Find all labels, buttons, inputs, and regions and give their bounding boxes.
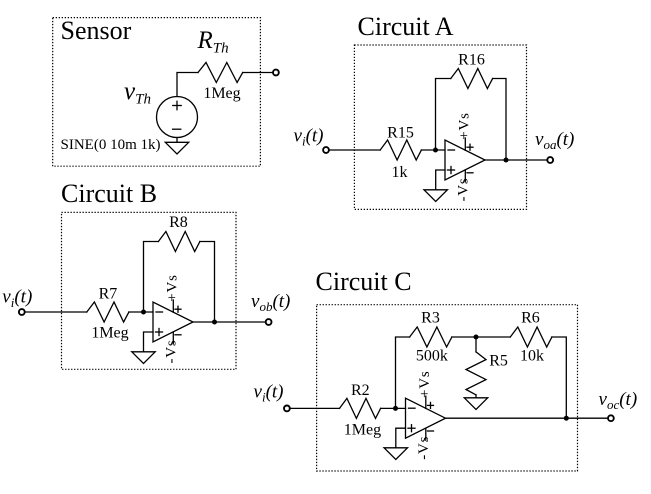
svg-text:SINE(0 10m 1k): SINE(0 10m 1k) [61, 137, 161, 153]
op-amp U_A [445, 138, 485, 182]
terminal: Circuit C input [284, 406, 290, 412]
dashed box: Circuit A block [354, 45, 526, 209]
wire: R2 to op-amp inverting input [381, 407, 406, 409]
svg-text:vi(t): vi(t) [254, 381, 284, 404]
svg-text:vTh: vTh [124, 78, 151, 108]
resistor R6 (10k) [510, 327, 552, 347]
terminal: Circuit A input [323, 147, 329, 153]
resistor R16 [451, 69, 493, 89]
resistor R7 (1Meg) [87, 302, 129, 322]
wire: A input to R15 [329, 149, 380, 151]
terminal: sensor output [273, 70, 279, 76]
dashed box: Circuit B block [62, 212, 237, 369]
voltage source vTh plus mark [173, 105, 181, 107]
svg-text:R8: R8 [169, 214, 188, 231]
wire: junction down to R5 [475, 337, 477, 352]
svg-text:R15: R15 [387, 125, 414, 142]
ground (R5) [464, 398, 487, 410]
svg-text:Circuit B: Circuit B [61, 179, 157, 208]
svg-text:-Vs: -Vs [416, 436, 432, 460]
svg-text:vi(t): vi(t) [294, 126, 324, 149]
svg-text:1Meg: 1Meg [203, 85, 240, 102]
node: B inverting input junction [141, 310, 146, 315]
resistor R8 [158, 232, 200, 252]
terminal: Circuit B input [19, 309, 25, 315]
wire: C feedback up to R3 [396, 337, 410, 408]
ground (Circuit C) [384, 448, 407, 460]
svg-text:voc(t): voc(t) [599, 389, 638, 412]
node: A inverting input junction [433, 148, 438, 153]
wire: B op-amp output to terminal [193, 321, 266, 323]
svg-text:voa(t): voa(t) [535, 129, 574, 152]
svg-text:vob(t): vob(t) [251, 291, 290, 314]
svg-text:-Vs: -Vs [456, 177, 472, 201]
wire: R6 down to C output [552, 337, 566, 418]
wire: R15 to op-amp inverting input [421, 149, 445, 151]
dashed box: Sensor block [53, 18, 261, 167]
resistor RTh (1Meg) [198, 63, 243, 83]
svg-text:R7: R7 [99, 285, 118, 302]
resistor R15 [380, 140, 421, 160]
node: C inverting input junction [393, 406, 398, 411]
svg-text:10k: 10k [520, 347, 544, 364]
wire: B non-inverting input to ground [144, 332, 154, 352]
terminal: Circuit C output [608, 415, 614, 421]
resistor R3 (500k) [410, 327, 452, 347]
wire: R5 to ground [475, 395, 477, 398]
dashed box: Circuit C block [317, 305, 578, 471]
svg-text:R5: R5 [489, 353, 508, 370]
svg-text:+Vs: +Vs [165, 274, 181, 302]
svg-text:R3: R3 [421, 309, 440, 326]
resistor R2 (1Meg) [340, 398, 381, 418]
svg-text:R6: R6 [521, 309, 540, 326]
node: C output junction [564, 416, 569, 421]
svg-text:+Vs: +Vs [457, 112, 473, 140]
wire: C non-inverting input to ground [396, 428, 406, 448]
svg-text:-Vs: -Vs [164, 339, 180, 363]
terminal: Circuit B output [266, 319, 272, 325]
ground (sensor) [165, 142, 188, 154]
node: B output junction [212, 320, 217, 325]
svg-text:Circuit A: Circuit A [358, 12, 454, 41]
terminal: Circuit A output [547, 157, 553, 163]
wire: C input to R2 [290, 407, 340, 409]
resistor R5 [466, 352, 486, 395]
svg-text:1Meg: 1Meg [344, 421, 381, 438]
svg-text:R16: R16 [458, 52, 485, 69]
op-amp U_B [153, 300, 193, 344]
svg-text:1Meg: 1Meg [91, 325, 128, 342]
svg-text:+Vs: +Vs [417, 370, 433, 398]
voltage source vTh circle [157, 97, 198, 138]
svg-text:Circuit C: Circuit C [316, 267, 412, 296]
wire: B input to R7 [25, 311, 87, 313]
wire: source bottom to ground [176, 138, 178, 143]
voltage source vTh minus mark [173, 128, 181, 130]
svg-text:R2: R2 [351, 382, 370, 399]
wire: R8 down to B output [200, 242, 215, 323]
svg-text:vi(t): vi(t) [2, 287, 32, 310]
wire: R7 to op-amp inverting input [129, 311, 153, 313]
svg-text:500k: 500k [416, 347, 448, 364]
wire: source top to RTh [177, 73, 198, 97]
wire: A non-inverting input to ground [436, 170, 445, 190]
wire: RTh to sensor output terminal [243, 72, 273, 74]
wire: C op-amp output to terminal [446, 417, 609, 419]
node: R3-R5-R6 junction [474, 335, 479, 340]
wire: B feedback up to R8 [144, 242, 159, 313]
ground (Circuit B) [132, 352, 155, 364]
node: A output junction [504, 158, 509, 163]
svg-text:Sensor: Sensor [61, 16, 132, 45]
wire: A op-amp output to terminal [485, 159, 547, 161]
wire: R3 to R6 [452, 336, 510, 338]
wire: A feedback up to R16 [436, 79, 451, 151]
ground (Circuit A) [424, 190, 447, 202]
svg-text:1k: 1k [392, 164, 408, 181]
op-amp U_C [406, 396, 446, 440]
wire: R16 down to A output [493, 79, 506, 161]
svg-text:RTh: RTh [197, 27, 229, 57]
